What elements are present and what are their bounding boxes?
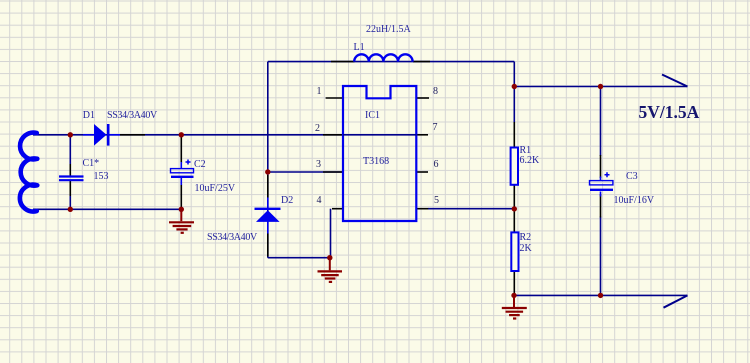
resistor R2 body — [511, 232, 518, 271]
diode D1 cathode bar — [107, 124, 110, 146]
pin number 8 — [433, 87, 438, 97]
wire: C1 top and bottom blue lead — [69, 135, 71, 210]
resistor R1 body — [511, 148, 518, 185]
pin number 4 — [317, 196, 322, 206]
label: D2 value SS34/3A40V — [207, 233, 257, 243]
label: R1 refdes — [520, 146, 532, 156]
pin: IC1 pin 8 — [417, 97, 430, 99]
capacitor C2 bottom plate — [171, 176, 194, 178]
wire: IC pin 5 row to R1/R2 node — [428, 208, 514, 210]
wire: top rail from left vertical over L1 to right corner — [268, 61, 515, 63]
wire: output rail to 5V port — [514, 86, 687, 88]
wire: C3 short blue lead bits — [600, 177, 602, 197]
label: R2 refdes — [520, 233, 532, 243]
label: output net 5V/1.5A — [639, 104, 700, 122]
label: IC1 value T3168 — [363, 157, 389, 167]
pin number 5 — [434, 196, 439, 206]
wire: bottom-left row from winding to C2 ground junction — [33, 208, 181, 210]
label: C2 value 10uF/25V — [195, 184, 236, 194]
wire: right vertical from top rail corner to output rail — [513, 62, 515, 87]
pin: IC1 pin 5 — [417, 208, 429, 210]
label: C1 refdes — [83, 159, 100, 169]
wire: bottom return rail to port — [514, 294, 688, 296]
inductor L1 (4 arcs) — [354, 54, 412, 61]
wire: IC pin 4 vertical to ground junction — [330, 209, 332, 258]
wire: left vertical from top rail down through D2 — [267, 62, 269, 258]
capacitor C3 plus sign — [605, 172, 610, 177]
label: D1 value SS34/3A40V — [107, 111, 157, 121]
port: bottom return arrow — [664, 295, 688, 307]
capacitor C3 top plate (hollow) — [590, 181, 613, 185]
pin number 6 — [434, 160, 439, 170]
pin number 1 — [317, 87, 322, 97]
pin: L1 left lead — [331, 61, 355, 63]
label: L1 value 22uH/1.5A — [366, 25, 411, 35]
pin: D2 black lead segments — [267, 175, 269, 257]
label: L1 refdes — [354, 43, 365, 53]
IC1 internal divider line — [343, 134, 417, 136]
inductor: input winding (3 arcs) — [20, 133, 37, 212]
pin: IC1 pin 7 — [417, 134, 429, 136]
label: R1 value 6.2K — [520, 156, 540, 166]
capacitor C2 top plate (hollow) — [171, 169, 194, 173]
diode D2 triangle — [256, 210, 280, 222]
pin: IC1 pin 3 — [323, 171, 343, 173]
capacitor C2 plus sign — [186, 160, 191, 165]
diode D2 blue stubs — [267, 198, 269, 234]
pin number 3 — [316, 160, 321, 170]
wire: IC pin 3 row to left vertical — [268, 171, 343, 173]
pin: IC1 pin 4 — [332, 208, 343, 210]
capacitor C1 plates — [59, 177, 84, 181]
capacitor C3 bottom plate — [590, 189, 613, 191]
node: junction dots — [68, 84, 604, 298]
label: IC1 refdes — [365, 111, 380, 121]
ground under C2 — [169, 209, 194, 233]
diode D1 blue stubs — [83, 134, 120, 136]
pin: IC1 pin 6 — [417, 171, 429, 173]
wire: input row from winding to IC pin 2 — [33, 134, 343, 136]
label: C2 refdes — [194, 160, 206, 170]
pin: L1 right lead — [413, 61, 430, 63]
wire: navy segments of C3 column — [600, 87, 602, 296]
ground under R2 — [502, 295, 527, 318]
pin: C3 leads — [600, 155, 602, 218]
label: C1 value 153 — [94, 172, 109, 182]
label: R2 value 2K — [520, 244, 532, 254]
label: D2 refdes — [281, 196, 293, 206]
port: 5V/1.5A output arrow — [662, 75, 688, 87]
diode D1 triangle — [94, 124, 107, 146]
diode D2 cathode bar — [255, 208, 281, 210]
label: C3 refdes — [626, 172, 638, 182]
pin: IC1 pin 2 — [323, 134, 343, 136]
ground under D2 / pin4 — [318, 258, 343, 282]
wire: C2 short blue lead bits — [180, 162, 182, 185]
op-amp/IC U1: IC1 T3168 outline — [343, 86, 416, 221]
pin number 2 — [315, 124, 320, 134]
wire: D2 anode to ground junction — [268, 257, 330, 259]
label: D1 refdes — [83, 111, 95, 121]
pin number 7 — [433, 123, 438, 133]
pin: R1/R2 vertical black leads — [513, 122, 515, 295]
wire: navy segment from output rail down to R1 pin — [513, 87, 515, 123]
pin: C1 lead black segments — [69, 164, 71, 196]
pin: IC1 pin 1 — [326, 97, 343, 99]
pin: D1 cathode lead — [120, 134, 145, 136]
pin: C2 leads — [180, 135, 182, 210]
label: C3 value 10uF/16V — [614, 196, 655, 206]
